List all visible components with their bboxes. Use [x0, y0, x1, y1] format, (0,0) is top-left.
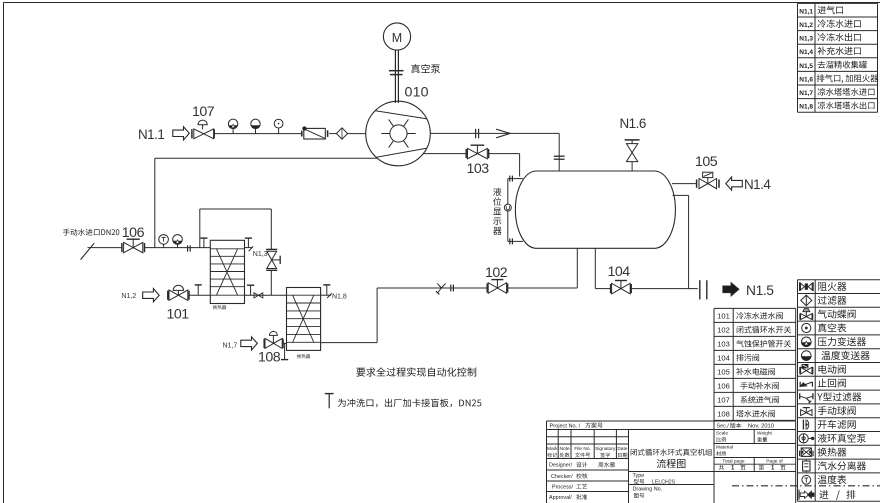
wire valve 108 to HX2	[283, 342, 287, 344]
svg-text:N1,5: N1,5	[799, 63, 813, 70]
title block sec row	[717, 423, 775, 430]
svg-text:Process/: Process/	[552, 484, 573, 490]
svg-text:105: 105	[695, 154, 718, 170]
pipe break slash	[81, 243, 95, 259]
flexible connector	[254, 293, 263, 298]
svg-text:102: 102	[485, 265, 508, 281]
label HX2 heat exchanger	[297, 354, 311, 358]
label 106	[122, 225, 145, 241]
vacuum pump 010 body	[366, 101, 431, 166]
svg-text:1: 1	[731, 466, 735, 472]
vent valve N1.6 flame arrester	[625, 140, 640, 171]
heat exchanger HX2	[287, 288, 321, 351]
wire HX2 outlet to riser	[321, 288, 378, 343]
title block grid	[547, 421, 796, 503]
svg-text:103: 103	[717, 340, 730, 349]
arrow N1.7 inlet	[241, 337, 257, 350]
svg-text:105: 105	[717, 368, 730, 377]
legend symbol Y-strainer	[800, 393, 813, 403]
wire valve 103 to tank	[489, 154, 520, 177]
wire pipe valve107 to strainer	[214, 133, 301, 135]
legend symbol pressure transmitter	[802, 337, 812, 347]
svg-text:M: M	[392, 31, 402, 45]
legend symbol thermometer	[802, 475, 811, 484]
svg-text:N1,6: N1,6	[799, 76, 813, 83]
label N1.6	[620, 116, 646, 131]
svg-text:010: 010	[405, 84, 429, 100]
valve N1.3 bypass	[266, 249, 280, 295]
valve 108 tower water inlet	[264, 331, 283, 348]
note automation requirement	[356, 367, 476, 376]
label vacuum pump name	[411, 64, 440, 73]
arrow N1.1 inlet	[173, 127, 190, 140]
svg-text:Page of: Page of	[766, 459, 783, 465]
instrument thermometer on 106 line	[159, 235, 169, 248]
svg-text:File No.: File No.	[574, 446, 591, 452]
svg-text:LELCH2S: LELCH2S	[652, 479, 676, 485]
title block drawing title	[631, 449, 713, 468]
svg-text:108: 108	[717, 410, 730, 419]
valve 106 manual makeup water	[122, 239, 145, 253]
legend symbol manual ball valve	[801, 408, 812, 416]
shaft coupling	[389, 71, 404, 75]
valve 101 chilled water inlet	[168, 285, 189, 300]
wire HX1 to HX2	[245, 294, 287, 296]
legend symbol startup strainer	[803, 420, 808, 430]
svg-text:Checker/: Checker/	[551, 474, 573, 480]
svg-text:101: 101	[167, 306, 190, 322]
title block scale weight	[716, 431, 773, 442]
Y strainer on 102 line	[436, 283, 446, 294]
label N1.3	[253, 251, 268, 258]
svg-text:Material: Material	[716, 445, 733, 451]
svg-text:N1.6: N1.6	[620, 116, 646, 131]
svg-text:Type: Type	[633, 473, 645, 479]
arrow N1.2 inlet	[143, 289, 160, 302]
legend symbol steam-water separator	[803, 460, 810, 473]
label 102	[485, 265, 508, 281]
valve item table 101-108	[714, 308, 796, 420]
drain stub below HX2 inlet	[281, 343, 288, 359]
legend symbol flame arrester	[800, 282, 813, 291]
label 108	[258, 349, 281, 365]
tank vessel 020	[515, 171, 675, 248]
svg-text:103: 103	[467, 161, 490, 177]
svg-text:Drawing No.: Drawing No.	[633, 487, 663, 493]
title block approval row	[549, 494, 587, 501]
startup strainer	[302, 126, 328, 139]
svg-text:Mark: Mark	[547, 446, 558, 452]
svg-text:Total page: Total page	[722, 459, 744, 465]
svg-text:N1,4: N1,4	[799, 49, 813, 56]
valve 107 system air inlet	[192, 120, 214, 139]
label N1.5	[746, 283, 774, 298]
wire pump outlet top	[430, 133, 559, 171]
svg-text:N1,7: N1,7	[799, 90, 813, 97]
title block header mark note file signatory date	[547, 446, 628, 457]
arrow N1.4 inlet	[726, 177, 743, 190]
valve 103 cavitation protection	[466, 145, 488, 159]
label 105	[695, 154, 718, 170]
label 103	[467, 161, 490, 177]
instrument vacuum gauge P	[274, 119, 283, 133]
svg-text:N1.1: N1.1	[138, 127, 164, 142]
title block material	[716, 445, 733, 456]
level indicator gauge	[504, 179, 511, 242]
note flushing port text	[338, 399, 481, 408]
flange on tank top nozzle	[554, 156, 565, 159]
note flushing port symbol	[325, 394, 334, 409]
instrument transmitter on 106 line	[173, 235, 183, 248]
wire valve 106 to HX1	[145, 247, 211, 249]
vacuum pump impeller	[381, 119, 415, 147]
svg-text:106: 106	[717, 382, 730, 391]
svg-text:107: 107	[192, 104, 215, 120]
title block text project no	[550, 422, 603, 429]
connection table N1.1-N1.8	[798, 3, 879, 112]
svg-text:Date: Date	[617, 446, 627, 452]
legend symbol heat exchanger	[800, 448, 813, 456]
label N1.1	[138, 127, 164, 142]
motor M	[383, 23, 410, 50]
label 010	[405, 84, 429, 100]
valve 104 blowdown	[611, 281, 632, 294]
svg-text:Sec./: Sec./	[717, 423, 730, 429]
wire riser to valve 102 line	[377, 287, 487, 289]
HX2 outlet stub N1.8	[321, 285, 332, 298]
label 101	[167, 306, 190, 322]
pipe break symbol	[476, 129, 479, 138]
label HX1 heat exchanger	[213, 305, 227, 309]
svg-text:N1,2: N1,2	[799, 22, 813, 29]
label N1.8	[332, 293, 347, 300]
svg-text:Nov. 2010: Nov. 2010	[748, 423, 774, 429]
legend symbol inlet outlet arrows	[799, 490, 814, 500]
wire bypass loop over HX1	[200, 209, 271, 249]
svg-text:104: 104	[608, 264, 631, 280]
wire pump to valve 103	[423, 153, 465, 155]
title block process row	[552, 484, 587, 491]
legend symbol pneumatic butterfly valve	[800, 309, 813, 320]
legend table grid	[798, 280, 880, 502]
legend symbol filter	[801, 295, 812, 306]
label 107	[192, 104, 215, 120]
svg-text:Designer/: Designer/	[549, 463, 573, 469]
title block total page	[719, 459, 786, 472]
pipe break bars N1.5	[700, 280, 707, 299]
svg-text:Weight: Weight	[757, 431, 773, 437]
wire tank to valve 105	[672, 183, 696, 185]
svg-text:Signatory: Signatory	[595, 446, 616, 452]
legend symbol check valve	[800, 382, 812, 387]
HX1 chilled water outlet stub N1.3	[245, 238, 254, 251]
pipe break ticks on 106 line	[188, 245, 191, 251]
svg-text:Note: Note	[560, 446, 570, 452]
watermark dash line	[732, 485, 880, 487]
svg-text:102: 102	[717, 326, 730, 335]
pipe break ticks on 102 line	[451, 285, 454, 292]
svg-text:107: 107	[717, 396, 730, 405]
svg-text:Scale: Scale	[716, 431, 728, 437]
heat exchanger HX1	[210, 240, 244, 303]
label 104	[608, 264, 631, 280]
label level display	[493, 188, 501, 235]
wire valve 104 to N1.5	[631, 288, 698, 290]
svg-text:Approval/: Approval/	[549, 495, 572, 501]
legend symbol liquid ring vacuum pump	[799, 434, 814, 443]
svg-text:N1,7: N1,7	[223, 342, 238, 349]
inline filter diamond	[329, 128, 366, 139]
svg-text:N1,8: N1,8	[332, 293, 347, 300]
title block type box	[633, 473, 676, 485]
svg-text:1: 1	[771, 466, 775, 472]
svg-text:Project No. /: Project No. /	[550, 423, 581, 429]
title block drawing no box	[633, 487, 663, 498]
svg-text:N1,8: N1,8	[799, 104, 813, 111]
level indicator stubs	[508, 176, 523, 245]
label N1.7	[223, 342, 238, 349]
legend symbol vacuum gauge	[802, 323, 811, 332]
svg-text:101: 101	[717, 312, 730, 321]
title block checker row	[551, 473, 587, 480]
instrument pressure transmitter PI-1	[228, 119, 237, 134]
instrument temperature transmitter TI-1	[251, 119, 260, 134]
legend symbol temperature transmitter	[802, 351, 812, 361]
wire valve 101 to HX1	[189, 294, 210, 296]
label N1.2	[122, 293, 137, 300]
svg-text:N1.4: N1.4	[744, 177, 771, 192]
legend symbol electric valve	[800, 364, 813, 374]
title block designer row	[549, 462, 615, 469]
wire tank side nozzle to N1.5 drop	[673, 195, 689, 288]
svg-text:N1,3: N1,3	[253, 251, 268, 258]
flow arrow chevron	[496, 129, 510, 138]
valve 105 makeup solenoid	[697, 172, 719, 189]
wire to valve 106	[88, 247, 122, 249]
svg-text:N1,3: N1,3	[799, 36, 813, 43]
svg-text:108: 108	[258, 349, 281, 365]
motor shaft	[395, 50, 398, 103]
flush port stub after HX1	[247, 285, 254, 295]
wire valve 102 to tank drain	[508, 248, 578, 288]
wire tank to valve 104	[595, 248, 610, 289]
svg-text:N1,2: N1,2	[122, 293, 137, 300]
valve 102 closed circulation switch	[487, 280, 507, 294]
flush port stub before HX1	[200, 238, 207, 248]
wire pump suction to manual water line	[155, 158, 378, 247]
svg-text:104: 104	[717, 354, 730, 363]
arrow N1.5 outlet	[723, 283, 739, 297]
svg-text:N1.5: N1.5	[746, 283, 774, 298]
flush port stub after valve 101	[195, 285, 202, 295]
label manual water inlet DN20	[63, 229, 119, 236]
svg-text:N1,1: N1,1	[799, 8, 813, 15]
label N1.4	[744, 177, 771, 192]
